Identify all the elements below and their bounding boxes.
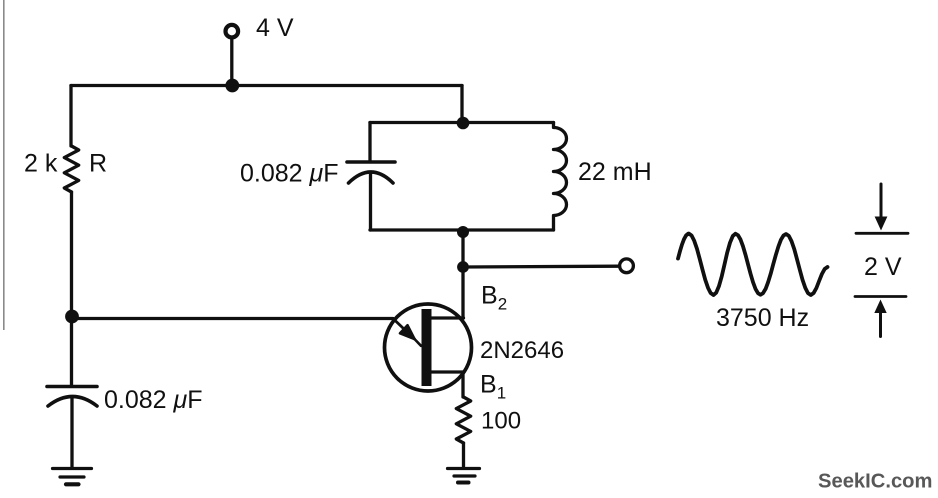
wire tank feed (460, 86, 463, 124)
svg-text:B2: B2 (481, 282, 507, 314)
svg-text:2 V: 2 V (864, 253, 902, 281)
svg-text:SeekIC.com: SeekIC.com (818, 471, 932, 493)
transistor Q1 emitter arrow (393, 319, 415, 340)
transistor Q1 B1 lead (431, 370, 463, 373)
transistor Q1 2N2646 circle (385, 304, 472, 391)
svg-text:2N2646: 2N2646 (480, 337, 564, 364)
transistor Q1 base bar (422, 309, 432, 386)
inductor L 22mH (554, 123, 567, 231)
wire drop to output (461, 232, 464, 267)
node junction tank bottom (457, 226, 469, 238)
svg-text:0.082 μF: 0.082 μF (240, 160, 339, 188)
wire left rail upper (69, 86, 72, 147)
dimension bar bottom (855, 295, 906, 298)
wire tank bottom (370, 228, 554, 231)
wire drop to B2 (461, 267, 464, 318)
svg-text:R: R (89, 150, 107, 178)
wire top rail (71, 84, 462, 87)
wire C1 to ground (70, 398, 73, 467)
capacitor C1 curved plate (48, 397, 97, 407)
resistor 100 (456, 397, 470, 443)
wire left rail lower (70, 192, 73, 386)
wire to right ground (462, 443, 465, 467)
capacitor C1 0.082uF left plate flat (47, 385, 97, 389)
resistor R 2k (64, 146, 78, 192)
scan edge artifact line (3, 0, 5, 330)
svg-text:3750 Hz: 3750 Hz (716, 304, 809, 332)
svg-text:B1: B1 (480, 371, 506, 403)
svg-text:100: 100 (481, 408, 521, 435)
dimension arrow bottom (874, 300, 886, 314)
node junction top rail (225, 79, 239, 93)
dimension arrow top (880, 184, 883, 219)
capacitor C2 0.082uF flat plate (347, 160, 395, 164)
wire 4V stem (230, 39, 233, 86)
node junction tank top (457, 117, 470, 130)
wire output (463, 265, 618, 269)
wire emitter horizontal (72, 317, 393, 320)
ground right (448, 467, 480, 470)
output sine wave 3750Hz (678, 234, 828, 296)
svg-text:2 k: 2 k (24, 150, 58, 178)
svg-text:4 V: 4 V (256, 14, 294, 42)
terminal output (620, 259, 634, 273)
capacitor C2 curved plate (349, 172, 394, 183)
transistor Q1 B2 lead (431, 316, 464, 319)
terminal 4V (226, 25, 239, 38)
svg-text:0.082 μF: 0.082 μF (104, 386, 203, 414)
dimension bar top (856, 232, 908, 235)
node junction emitter (65, 310, 79, 324)
wire B1 drop (461, 372, 464, 397)
wire tank top (370, 121, 554, 124)
ground left (53, 467, 92, 470)
wire tank left upper (368, 123, 371, 162)
wire tank left lower (369, 173, 372, 231)
svg-text:22 mH: 22 mH (578, 158, 652, 186)
node junction output (457, 261, 469, 273)
